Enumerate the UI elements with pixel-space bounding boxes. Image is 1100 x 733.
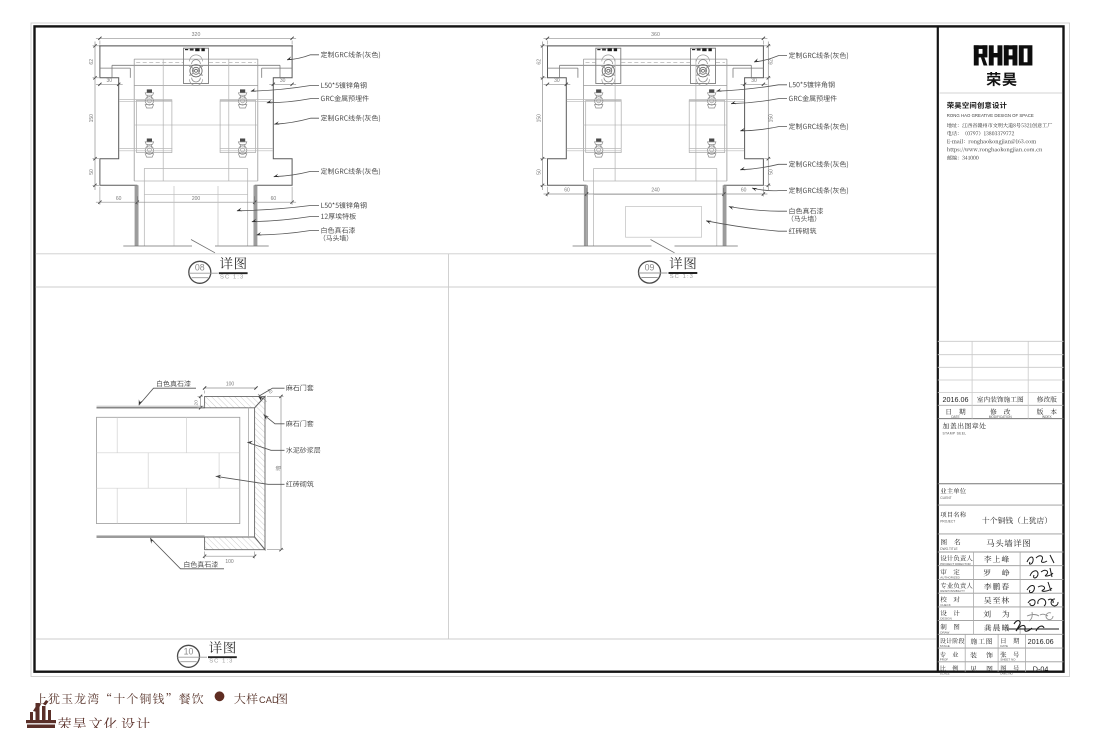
- svg-text:30: 30: [554, 78, 560, 84]
- project row: [938, 504, 1064, 506]
- detail bubble 10: [178, 645, 200, 667]
- leader line: [287, 55, 319, 60]
- svg-text:STAMP SEEL: STAMP SEEL: [943, 432, 967, 436]
- wall inner lining: [143, 168, 145, 246]
- bolt assembly: [240, 139, 245, 142]
- svg-text:60: 60: [271, 196, 277, 202]
- label stone paint 10 bottom: [150, 538, 155, 544]
- dim left column: [542, 42, 544, 191]
- signature 6: [1007, 621, 1059, 632]
- panel separator top strip: [36, 253, 937, 255]
- caption drawing type: [234, 693, 257, 704]
- bolt assembly: [147, 89, 152, 92]
- svg-text:100: 100: [226, 382, 235, 388]
- signature 4: [1028, 599, 1058, 606]
- embed plate with anchor: [184, 48, 209, 83]
- caption project title: [35, 693, 203, 704]
- svg-text:60: 60: [741, 188, 747, 194]
- svg-text:320: 320: [192, 32, 201, 38]
- cap outer profile right: [724, 46, 764, 186]
- bolt assembly: [596, 139, 601, 142]
- GRC cap top edge: [547, 45, 765, 47]
- signature 5: [1027, 612, 1053, 621]
- dim 20 left of band: [200, 396, 202, 407]
- svg-text:09: 09: [645, 263, 655, 273]
- dim 100 bottom: [205, 555, 255, 557]
- leader line: [731, 99, 787, 104]
- angle line: [119, 99, 172, 101]
- client row: [938, 483, 1064, 485]
- svg-text:PROF: PROF: [940, 658, 949, 662]
- cap outer ledge: [100, 67, 130, 69]
- dim 30 right: [269, 83, 296, 85]
- leader line: [252, 217, 319, 222]
- staff table: [938, 551, 1064, 553]
- svg-text:SC 1:3: SC 1:3: [670, 274, 694, 280]
- dim top width: [544, 37, 768, 39]
- dim 40 chamfer: [258, 394, 267, 402]
- wall break line: [123, 245, 192, 247]
- wall board lines 08: [173, 186, 175, 246]
- angle steel bracket left: [136, 101, 172, 153]
- wall render coat left: [135, 185, 138, 246]
- svg-text:DATE: DATE: [951, 415, 959, 419]
- detail title 10: [209, 641, 235, 653]
- svg-text:20: 20: [194, 400, 200, 406]
- leader line: [717, 85, 788, 91]
- leader line: [274, 118, 319, 124]
- company title: [947, 102, 1007, 109]
- svg-text:62: 62: [89, 59, 95, 65]
- bolt assembly: [240, 89, 245, 92]
- logo separator: [940, 92, 1062, 94]
- leader line: [257, 231, 320, 236]
- wall render coat right: [255, 185, 258, 246]
- mortar layer line: [248, 408, 250, 537]
- dim bottom widths: [96, 201, 296, 203]
- bottom-left logo mark: [26, 700, 56, 728]
- svg-text:PROJECT DIRECTOR: PROJECT DIRECTOR: [940, 562, 971, 566]
- svg-text:50: 50: [536, 169, 542, 175]
- detail title 08: [220, 257, 246, 269]
- dim 30 right: [741, 83, 768, 85]
- svg-text:150: 150: [769, 114, 775, 123]
- svg-text:DRAW: DRAW: [940, 630, 949, 634]
- bottom info rows: [938, 647, 1064, 649]
- cap outer profile left: [548, 46, 587, 186]
- signature 3: [1027, 582, 1052, 593]
- svg-text:240: 240: [651, 188, 660, 194]
- hidden dashed line: [136, 61, 183, 63]
- revision table: [938, 340, 1064, 342]
- svg-text:MODIFICATION: MODIFICATION: [989, 415, 1013, 419]
- bolt assembly: [596, 89, 601, 92]
- angle line: [567, 148, 622, 150]
- wall inner rect 09: [626, 207, 702, 238]
- brick core: [97, 417, 240, 523]
- label jamb stone 2: [264, 415, 270, 420]
- label jamb stone 1: [259, 396, 265, 401]
- wall bottom face: [97, 534, 205, 536]
- dim 30 left: [96, 83, 123, 85]
- svg-text:DESIGN: DESIGN: [940, 617, 952, 621]
- svg-text:50: 50: [769, 169, 775, 175]
- company name CN large: [987, 72, 1017, 86]
- wall top face: [97, 405, 205, 407]
- angle steel bracket left: [586, 101, 622, 153]
- web line: [947, 147, 1042, 152]
- hidden dashed line: [586, 61, 596, 63]
- revision header row: [947, 409, 966, 415]
- svg-text:200: 200: [192, 196, 201, 202]
- svg-text:STAGE: STAGE: [940, 644, 950, 648]
- inner column faces: [162, 59, 164, 181]
- inner box: [584, 58, 727, 60]
- dim left column: [94, 42, 96, 191]
- panel separator bottom strip: [36, 638, 937, 640]
- svg-text:INDEX: INDEX: [1042, 415, 1053, 419]
- svg-text:30: 30: [107, 78, 113, 84]
- dim right height: [280, 396, 282, 549]
- svg-text:DWG.TITLE: DWG.TITLE: [940, 547, 957, 551]
- label red brick 10: [216, 475, 222, 479]
- angle steel bracket right: [689, 101, 725, 153]
- dim 100 top: [205, 387, 256, 389]
- svg-text:AUTHORIZED: AUTHORIZED: [940, 576, 960, 580]
- cap underside line: [112, 64, 280, 66]
- svg-text:SHEET NO: SHEET NO: [1000, 658, 1016, 662]
- detail bubble 08: [189, 261, 211, 283]
- leader line: [752, 188, 787, 191]
- svg-text:360: 360: [651, 32, 660, 38]
- postcode line: [947, 155, 978, 160]
- leader line: [267, 99, 319, 103]
- leader line: [754, 56, 787, 62]
- svg-text:30: 30: [280, 78, 286, 84]
- svg-text:50: 50: [89, 169, 95, 175]
- panel vertical divider: [448, 254, 450, 639]
- cap outer ledge: [548, 67, 578, 69]
- bolt assembly: [147, 139, 152, 142]
- cap outer profile right: [255, 46, 292, 186]
- angle line: [567, 99, 622, 101]
- svg-text:150: 150: [536, 114, 542, 123]
- email line: [947, 139, 1036, 144]
- bolt assembly: [709, 139, 714, 142]
- bottom-left logo text: [58, 717, 86, 730]
- RHAO logo: [974, 45, 979, 65]
- svg-text:2016.06: 2016.06: [1028, 637, 1054, 646]
- svg-text:08: 08: [195, 263, 205, 273]
- door jamb stone bottom band: [205, 537, 265, 550]
- GRC cap top edge: [99, 45, 293, 47]
- embed plate with anchor: [691, 48, 716, 83]
- dim bottom widths: [544, 193, 768, 195]
- svg-text:CAD: CAD: [259, 695, 279, 705]
- svg-text:SCALE: SCALE: [940, 671, 950, 675]
- bolt assembly: [709, 89, 714, 92]
- title block divider: [937, 26, 939, 671]
- svg-text:RONG HAO GREATIVE DESIGN OF SP: RONG HAO GREATIVE DESIGN OF SPACE: [947, 113, 1034, 118]
- svg-text:CHECK: CHECK: [940, 603, 951, 607]
- svg-text:30: 30: [751, 78, 757, 84]
- leader line: [251, 86, 319, 92]
- svg-text:62: 62: [536, 59, 542, 65]
- svg-text:PROJECT: PROJECT: [940, 520, 955, 524]
- svg-text:100: 100: [225, 559, 234, 565]
- angle steel bracket right: [220, 101, 256, 153]
- svg-text:RESPONSIBILITY: RESPONSIBILITY: [940, 589, 965, 593]
- svg-text:60: 60: [564, 188, 570, 194]
- cap underside line: [560, 64, 752, 66]
- leader line: [740, 127, 787, 131]
- label stone paint 10 top: [139, 399, 143, 405]
- leader line: [237, 206, 319, 211]
- label mortar layer: [247, 441, 253, 445]
- svg-text:62: 62: [769, 59, 775, 65]
- svg-text:60: 60: [116, 196, 122, 202]
- svg-text:SC 1:3: SC 1:3: [209, 658, 233, 664]
- leader line: [274, 171, 319, 176]
- dim right column: [767, 42, 769, 191]
- caption bullet: [215, 691, 225, 701]
- svg-text:DATE: DATE: [1000, 644, 1008, 648]
- dim top width: [96, 37, 296, 39]
- svg-text:150: 150: [89, 114, 95, 123]
- svg-text:CLIENT: CLIENT: [940, 496, 951, 500]
- signature 1: [1027, 555, 1054, 564]
- embed plate with anchor: [596, 48, 621, 83]
- wall inner lining: [593, 168, 595, 246]
- door jamb stone top band: [205, 396, 265, 407]
- stamp area: [943, 423, 986, 430]
- brick joints: [97, 452, 240, 454]
- address line: [947, 123, 1052, 128]
- detail bubble 09: [639, 261, 661, 283]
- signature 2: [1030, 568, 1053, 578]
- svg-text:SC 1:3: SC 1:3: [220, 274, 244, 280]
- inner box: [134, 58, 258, 60]
- dim 30 left: [544, 83, 571, 85]
- wall render coat right: [724, 185, 727, 246]
- wall break line: [573, 245, 652, 247]
- dwg title row: [938, 533, 1064, 535]
- svg-text:DWG.NO: DWG.NO: [1000, 671, 1013, 675]
- svg-text:2016.06: 2016.06: [943, 395, 969, 404]
- leader line: [740, 164, 787, 170]
- wall render coat left: [584, 185, 587, 246]
- cap outer profile left: [100, 46, 137, 186]
- leader line: [706, 221, 787, 231]
- leader line: [729, 207, 787, 212]
- detail title 09: [670, 257, 696, 269]
- svg-text:D-04: D-04: [1033, 664, 1049, 673]
- svg-text:10: 10: [184, 647, 194, 657]
- angle line: [119, 148, 172, 150]
- inner column faces: [614, 59, 616, 181]
- door jamb stone side band: [255, 396, 265, 549]
- phone line: [947, 131, 1014, 136]
